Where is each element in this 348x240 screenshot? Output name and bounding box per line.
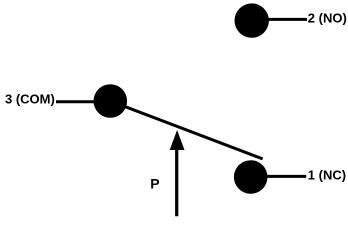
switch blade: movable contact from COM to NC [110, 101, 262, 159]
svg-text:P: P [150, 176, 159, 192]
contact dot: terminal 3 (COM) [94, 84, 128, 118]
contact dot: terminal 1 (NC) [234, 160, 268, 194]
svg-text:2 (NO): 2 (NO) [308, 11, 347, 26]
contact dot: terminal 2 (NO) [235, 3, 269, 37]
svg-text:3 (COM): 3 (COM) [5, 91, 55, 106]
actuator arrow P (plunger force, pointing up) [170, 130, 185, 216]
svg-text:1 (NC): 1 (NC) [308, 168, 346, 183]
wire: NO lead [267, 18, 307, 21]
wire: NC lead [268, 175, 307, 178]
wire: COM lead [56, 100, 95, 103]
